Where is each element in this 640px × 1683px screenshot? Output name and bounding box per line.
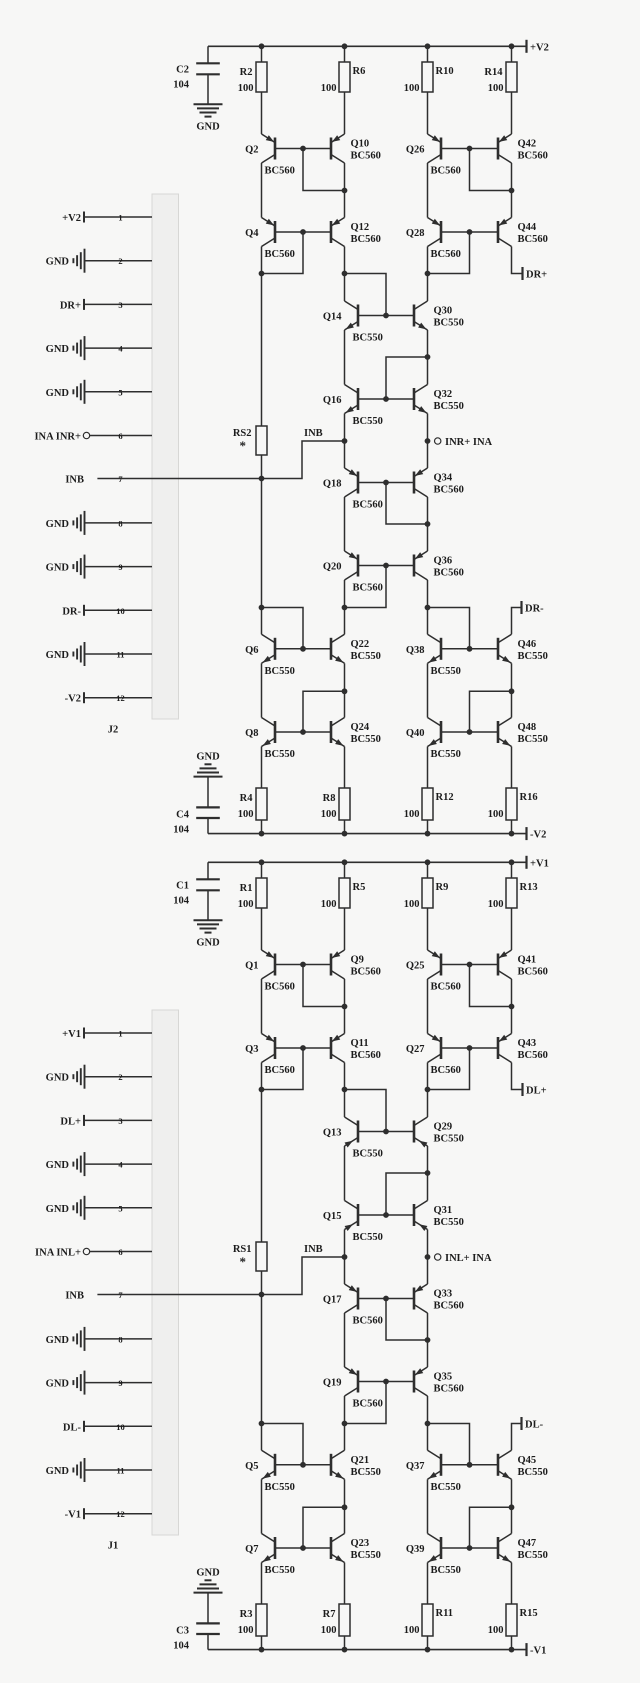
- wire R15 to rail: [511, 1636, 513, 1650]
- wire base Q17/Q33 to collector Q33: [386, 1299, 428, 1341]
- wire column1 RS-G: [261, 455, 263, 608]
- transistor Q46 BC550: [498, 634, 548, 665]
- transistor Q4 BC560: [245, 218, 295, 261]
- J1 pin 5 GND: [46, 1196, 152, 1220]
- transistor Q22 BC550: [331, 634, 381, 665]
- node base junction Q14/Q30: [383, 313, 389, 319]
- wire R13 to transistor: [511, 908, 513, 950]
- wire base of Q13/Q29: [358, 1131, 414, 1133]
- svg-text:Q46: Q46: [518, 639, 537, 650]
- transistor Q11 BC560: [330, 1034, 380, 1063]
- transistor Q38 BC550: [406, 634, 461, 677]
- svg-text:8: 8: [118, 1334, 122, 1344]
- svg-text:100: 100: [321, 1625, 337, 1636]
- svg-text:12: 12: [116, 693, 125, 703]
- wire column2 E-F: [344, 1313, 346, 1367]
- svg-text:Q43: Q43: [518, 1038, 537, 1049]
- transistor Q36 BC560: [413, 551, 463, 580]
- wire column2 F-G: [344, 1396, 346, 1450]
- node junction (344.5,1423.5): [342, 1421, 348, 1427]
- resistor R14 100: [484, 62, 517, 94]
- wire R5 to rail: [344, 862, 346, 878]
- wire base of Q14/Q30: [358, 315, 414, 317]
- node INR+ INA input: [435, 437, 493, 448]
- transistor Q40 BC550: [406, 718, 461, 761]
- wire column2 A-B: [344, 979, 346, 1034]
- wire R16 to transistor: [511, 747, 513, 789]
- transistor Q17 BC560: [323, 1284, 383, 1327]
- wire column3 G-H: [427, 1479, 429, 1533]
- svg-text:Q29: Q29: [434, 1122, 453, 1133]
- svg-text:Q39: Q39: [406, 1544, 425, 1555]
- capacitor C3 104: [173, 1593, 220, 1652]
- wire base of Q37/Q45: [441, 1464, 498, 1466]
- wire base of Q7/Q23: [275, 1547, 331, 1549]
- transistor Q23 BC550: [331, 1534, 381, 1565]
- node base junction Q27/Q43: [467, 1045, 473, 1051]
- svg-text:Q28: Q28: [406, 228, 425, 239]
- svg-text:R13: R13: [520, 882, 538, 893]
- J1 pin 9 GND: [46, 1371, 152, 1395]
- svg-text:R4: R4: [240, 793, 254, 804]
- wire base of Q18/Q34: [358, 482, 414, 484]
- transistor Q6 BC550: [245, 634, 295, 677]
- wire R11 to transistor: [427, 1563, 429, 1605]
- svg-text:3: 3: [118, 300, 122, 310]
- svg-text:BC560: BC560: [351, 151, 381, 162]
- wire R2 to rail: [261, 46, 263, 62]
- wire column1 B-RS: [261, 1063, 263, 1243]
- svg-text:BC550: BC550: [431, 749, 461, 760]
- svg-text:100: 100: [238, 83, 254, 94]
- node junction INB / RS lead: [259, 476, 265, 482]
- transistor Q44 BC560: [497, 218, 547, 247]
- J1 pin 8 GND: [46, 1327, 152, 1351]
- wire DL- to collector: [512, 1424, 521, 1451]
- svg-text:100: 100: [238, 899, 254, 910]
- svg-text:1: 1: [118, 213, 122, 223]
- wire R14 to rail: [511, 46, 513, 62]
- node base junction Q19/Q35: [383, 1379, 389, 1385]
- svg-text:R9: R9: [436, 882, 449, 893]
- node junction (261.5,1423.5): [259, 1421, 265, 1427]
- wire column3 A-B: [427, 979, 429, 1034]
- node base junction Q25/Q41: [467, 962, 473, 968]
- svg-text:10: 10: [116, 606, 125, 616]
- svg-text:Q25: Q25: [406, 961, 425, 972]
- wire base of Q38/Q46: [441, 648, 498, 650]
- wire base of Q19/Q35: [358, 1381, 414, 1383]
- wire column3 D-E: [427, 414, 429, 469]
- node junction (261.5,273.5): [259, 271, 265, 277]
- wire column4 G-H: [511, 1479, 513, 1533]
- svg-text:11: 11: [116, 1466, 124, 1476]
- wire DR- to collector: [512, 608, 521, 635]
- svg-text:R10: R10: [436, 66, 454, 77]
- wire base Q6/Q22 to node RS: [262, 608, 304, 649]
- svg-text:2: 2: [118, 256, 122, 266]
- svg-text:104: 104: [173, 824, 190, 835]
- wire base Q2/Q10 to collector Q10: [303, 149, 345, 191]
- resistor RS1 *: [233, 1242, 267, 1271]
- svg-text:8: 8: [118, 518, 122, 528]
- svg-text:BC560: BC560: [518, 967, 548, 978]
- wire column2 B-C: [344, 1063, 346, 1118]
- node base junction Q8/Q24: [300, 729, 306, 735]
- svg-text:Q33: Q33: [434, 1289, 453, 1300]
- wire R8 to transistor: [344, 747, 346, 789]
- svg-text:BC560: BC560: [431, 249, 461, 260]
- svg-text:-V1: -V1: [65, 1510, 81, 1521]
- svg-text:DR-: DR-: [525, 604, 544, 615]
- svg-text:BC560: BC560: [265, 982, 295, 993]
- svg-text:Q19: Q19: [323, 1378, 342, 1389]
- node junction (427.5,607.5): [425, 605, 431, 611]
- node rail junction x=344.5: [342, 859, 348, 865]
- svg-text:R3: R3: [240, 1609, 253, 1620]
- wire base Q20/Q36 to collector Q20: [345, 566, 387, 608]
- svg-text:C1: C1: [176, 880, 189, 891]
- J1 pin 3 DL+: [60, 1115, 152, 1128]
- wire base of Q3/Q11: [275, 1047, 331, 1049]
- wire R14 to transistor: [511, 92, 513, 134]
- wire column3 C-D: [427, 1146, 429, 1201]
- svg-text:BC550: BC550: [431, 1565, 461, 1576]
- node junction (511.5,190.5): [509, 188, 515, 194]
- wire R10 to transistor: [427, 92, 429, 134]
- J2 pin 3 DR+: [60, 299, 152, 312]
- transistor Q47 BC550: [498, 1534, 548, 1565]
- svg-text:BC560: BC560: [353, 583, 383, 594]
- wire base Q19/Q35 to collector Q19: [345, 1382, 387, 1424]
- svg-text:BC550: BC550: [434, 318, 464, 329]
- node rail junction x=344.5: [342, 43, 348, 49]
- node base junction Q15/Q31: [383, 1212, 389, 1218]
- transistor Q27 BC560: [406, 1034, 461, 1077]
- resistor R8 100: [321, 788, 350, 820]
- node rail junction x=261.5: [259, 859, 265, 865]
- wire base Q39/Q47 to emitter Q47: [470, 1507, 512, 1548]
- wire R3 to transistor: [261, 1563, 263, 1605]
- svg-text:J1: J1: [108, 1541, 119, 1552]
- node junction (261.5,1089.5): [259, 1087, 265, 1093]
- wire R12 to transistor: [427, 747, 429, 789]
- transistor Q33 BC560: [413, 1284, 463, 1313]
- svg-text:DR-: DR-: [62, 606, 81, 617]
- wire R7 to transistor: [344, 1563, 346, 1605]
- J1 pin 4 GND: [46, 1152, 152, 1176]
- node base junction Q20/Q36: [383, 563, 389, 569]
- transistor Q16 BC550: [323, 385, 383, 428]
- svg-text:BC560: BC560: [431, 1065, 461, 1076]
- J1 pin 11 GND: [46, 1458, 152, 1482]
- transistor Q48 BC550: [498, 718, 548, 749]
- resistor RS2 *: [233, 426, 267, 455]
- svg-text:INB: INB: [65, 1291, 84, 1302]
- node junction (427.5,357): [425, 354, 431, 360]
- terminal DL+: [523, 1083, 547, 1097]
- wire net INB from J pin 7: [97, 1257, 344, 1295]
- resistor R16 100: [488, 788, 538, 820]
- svg-text:BC560: BC560: [265, 166, 295, 177]
- svg-text:BC550: BC550: [265, 1482, 295, 1493]
- wire column2 F-G: [344, 580, 346, 634]
- wire base Q4/Q12 to collector Q4: [262, 232, 304, 274]
- wire base Q16/Q32 to collector Q32: [386, 357, 428, 399]
- wire R16 to rail: [511, 820, 513, 834]
- wire R7 to rail: [344, 1636, 346, 1650]
- svg-text:GND: GND: [46, 519, 70, 530]
- wire column2 G-H: [344, 663, 346, 717]
- svg-text:INB: INB: [304, 428, 323, 439]
- svg-text:Q30: Q30: [434, 306, 453, 317]
- resistor R1 100: [238, 878, 267, 910]
- svg-text:Q27: Q27: [406, 1044, 425, 1055]
- svg-text:Q40: Q40: [406, 728, 425, 739]
- wire base Q18/Q34 to collector Q34: [386, 483, 428, 525]
- wire base of Q4/Q12: [275, 231, 331, 233]
- label J1: [108, 1541, 119, 1552]
- svg-text:Q1: Q1: [245, 961, 258, 972]
- svg-text:GND: GND: [46, 563, 70, 574]
- node rail junction x=427.5: [425, 43, 431, 49]
- svg-text:Q9: Q9: [351, 955, 364, 966]
- wire base Q1/Q9 to collector Q9: [303, 965, 345, 1007]
- wire base Q15/Q31 to collector Q31: [386, 1173, 428, 1215]
- node junction (511.5,1507.3): [509, 1504, 515, 1510]
- svg-text:BC550: BC550: [265, 749, 295, 760]
- svg-text:R16: R16: [520, 792, 538, 803]
- svg-text:BC560: BC560: [351, 967, 381, 978]
- node junction (344.5,273.5): [342, 271, 348, 277]
- svg-text:2: 2: [118, 1072, 122, 1082]
- resistor R5 100: [321, 878, 366, 910]
- svg-text:BC560: BC560: [265, 249, 295, 260]
- transistor Q39 BC550: [406, 1534, 461, 1577]
- wire column1 to G collector: [261, 1424, 263, 1451]
- wire R6 to rail: [344, 46, 346, 62]
- svg-text:Q20: Q20: [323, 562, 342, 573]
- J2 pin 11 GND: [46, 642, 152, 666]
- wire base of Q8/Q24: [275, 731, 331, 733]
- svg-text:+V2: +V2: [530, 42, 549, 53]
- wire base of Q40/Q48: [441, 731, 498, 733]
- svg-text:BC550: BC550: [351, 1467, 381, 1478]
- transistor Q1 BC560: [245, 950, 295, 993]
- ground symbol GND (C3): [194, 1568, 223, 1593]
- wire column1 to G collector: [261, 608, 263, 635]
- node junction (261.5,607.5): [259, 605, 265, 611]
- transistor Q13 BC550: [323, 1117, 383, 1160]
- svg-text:100: 100: [321, 83, 337, 94]
- wire DL+ from collector: [512, 1063, 522, 1090]
- svg-text:BC560: BC560: [434, 568, 464, 579]
- svg-text:-V2: -V2: [65, 694, 81, 705]
- J2 pin 6 INA INR+: [34, 431, 152, 443]
- wire column1 A-B: [261, 979, 263, 1034]
- wire +V1 power rail: [208, 861, 527, 863]
- wire base of Q15/Q31: [358, 1214, 414, 1216]
- resistor R13 100: [488, 878, 538, 910]
- node base junction Q28/Q44: [467, 229, 473, 235]
- svg-text:Q10: Q10: [351, 139, 370, 150]
- capacitor C4 104: [173, 777, 220, 836]
- svg-text:R2: R2: [240, 67, 253, 78]
- svg-text:BC560: BC560: [351, 1050, 381, 1061]
- wire base of Q1/Q9: [275, 964, 331, 966]
- svg-text:Q35: Q35: [434, 1372, 453, 1383]
- svg-text:GND: GND: [46, 388, 70, 399]
- transistor Q2 BC560: [245, 134, 295, 177]
- svg-text:R15: R15: [520, 1608, 538, 1619]
- node junction (344.5,607.5): [342, 605, 348, 611]
- svg-text:BC550: BC550: [351, 651, 381, 662]
- svg-text:DL-: DL-: [525, 1420, 544, 1431]
- svg-text:BC550: BC550: [353, 1232, 383, 1243]
- transistor Q28 BC560: [406, 218, 461, 261]
- wire base of Q26/Q42: [441, 148, 498, 150]
- svg-text:BC550: BC550: [434, 401, 464, 412]
- wire column3 G-H: [427, 663, 429, 717]
- node junction INL+: [425, 1254, 431, 1260]
- svg-text:100: 100: [321, 899, 337, 910]
- svg-text:C2: C2: [176, 64, 189, 75]
- svg-text:Q6: Q6: [245, 645, 258, 656]
- node base junction Q18/Q34: [383, 480, 389, 486]
- connector J2: [152, 194, 179, 719]
- wire R13 to rail: [511, 862, 513, 878]
- svg-text:Q42: Q42: [518, 139, 537, 150]
- wire R4 to transistor: [261, 747, 263, 789]
- node junction (427.5,1423.5): [425, 1421, 431, 1427]
- svg-text:R14: R14: [484, 67, 503, 78]
- resistor R7 100: [321, 1604, 350, 1636]
- wire column3 B-C: [427, 1063, 429, 1118]
- resistor R11 100: [404, 1604, 453, 1636]
- wire net INB from J pin 7: [97, 441, 344, 479]
- svg-text:BC550: BC550: [353, 416, 383, 427]
- wire R10 to rail: [427, 46, 429, 62]
- wire base of Q20/Q36: [358, 565, 414, 567]
- transistor Q5 BC550: [245, 1450, 295, 1493]
- svg-text:R1: R1: [240, 883, 253, 894]
- svg-text:104: 104: [173, 1640, 190, 1651]
- svg-text:Q31: Q31: [434, 1205, 453, 1216]
- node rail junction x=344.5: [342, 831, 348, 837]
- svg-text:BC550: BC550: [351, 1550, 381, 1561]
- svg-text:100: 100: [321, 809, 337, 820]
- svg-text:BC550: BC550: [353, 1149, 383, 1160]
- wire R9 to rail: [427, 862, 429, 878]
- svg-text:Q34: Q34: [434, 473, 453, 484]
- wire column3 A-B: [427, 163, 429, 218]
- svg-text:9: 9: [118, 562, 122, 572]
- transistor Q9 BC560: [330, 950, 380, 979]
- svg-text:10: 10: [116, 1422, 125, 1432]
- wire column2 G-H: [344, 1479, 346, 1533]
- svg-text:Q44: Q44: [518, 222, 537, 233]
- node base junction Q39/Q47: [467, 1545, 473, 1551]
- J1 pin 10 DL-: [63, 1421, 152, 1434]
- wire column1 RS-G: [261, 1271, 263, 1424]
- svg-text:Q7: Q7: [245, 1544, 258, 1555]
- transistor Q15 BC550: [323, 1201, 383, 1244]
- J2 pin 2 GND: [46, 249, 152, 273]
- node INL+ INA input: [435, 1253, 492, 1264]
- svg-text:Q12: Q12: [351, 222, 370, 233]
- node base junction Q13/Q29: [383, 1129, 389, 1135]
- transistor Q20 BC560: [323, 551, 383, 594]
- wire column3 D-E: [427, 1230, 429, 1285]
- node rail junction x=427.5: [425, 1647, 431, 1653]
- svg-text:BC560: BC560: [351, 234, 381, 245]
- svg-text:BC560: BC560: [353, 500, 383, 511]
- node junction (344.5,1089.5): [342, 1087, 348, 1093]
- resistor R10 100: [404, 62, 454, 94]
- svg-text:INL+ INA: INL+ INA: [445, 1253, 492, 1264]
- svg-text:BC550: BC550: [518, 651, 548, 662]
- node base junction Q7/Q23: [300, 1545, 306, 1551]
- ground symbol GND (C2): [194, 104, 223, 132]
- node rail junction x=511.5: [509, 859, 515, 865]
- node base junction Q6/Q22: [300, 646, 306, 652]
- resistor R12 100: [404, 788, 454, 820]
- svg-text:Q38: Q38: [406, 645, 425, 656]
- node junction INB at emitter column: [342, 438, 348, 444]
- node base junction Q40/Q48: [467, 729, 473, 735]
- wire base of Q27/Q43: [441, 1047, 498, 1049]
- svg-text:9: 9: [118, 1378, 122, 1388]
- svg-text:Q16: Q16: [323, 395, 342, 406]
- transistor Q30 BC550: [414, 301, 464, 332]
- J1 pin 2 GND: [46, 1065, 152, 1089]
- svg-text:GND: GND: [46, 257, 70, 268]
- wire R1 to transistor: [261, 908, 263, 950]
- svg-text:Q23: Q23: [351, 1538, 370, 1549]
- node junction (344.5,1006.5): [342, 1004, 348, 1010]
- transistor Q7 BC550: [245, 1534, 295, 1577]
- svg-text:INB: INB: [65, 475, 84, 486]
- svg-text:104: 104: [173, 79, 190, 90]
- svg-text:Q15: Q15: [323, 1211, 342, 1222]
- transistor Q34 BC560: [413, 468, 463, 497]
- svg-text:DR+: DR+: [60, 300, 81, 311]
- transistor Q3 BC560: [245, 1034, 295, 1077]
- svg-text:GND: GND: [46, 1335, 70, 1346]
- wire R4 to rail: [261, 820, 263, 834]
- svg-text:BC560: BC560: [518, 1050, 548, 1061]
- svg-text:6: 6: [118, 1247, 122, 1257]
- transistor Q21 BC550: [331, 1450, 381, 1481]
- wire column2 C-D: [344, 1146, 346, 1201]
- node base junction Q38/Q46: [467, 646, 473, 652]
- svg-text:Q5: Q5: [245, 1461, 258, 1472]
- svg-text:DR+: DR+: [526, 270, 547, 281]
- transistor Q45 BC550: [498, 1450, 548, 1481]
- resistor R2 100: [238, 62, 267, 94]
- svg-text:BC560: BC560: [518, 151, 548, 162]
- node base junction Q2/Q10: [300, 146, 306, 152]
- svg-text:GND: GND: [46, 650, 70, 661]
- label net INB: [304, 428, 323, 439]
- label J2: [108, 725, 119, 736]
- svg-text:Q48: Q48: [518, 722, 537, 733]
- svg-text:11: 11: [116, 650, 124, 660]
- wire base Q28/Q44 to collector Q28: [428, 232, 470, 274]
- wire column2 D-E: [344, 1230, 346, 1285]
- svg-text:GND: GND: [196, 937, 220, 948]
- transistor Q29 BC550: [414, 1117, 464, 1147]
